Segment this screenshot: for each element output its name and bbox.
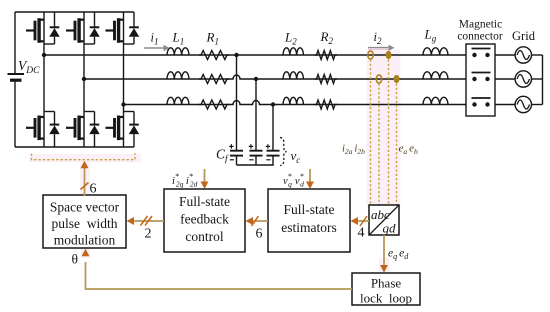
svg-text:lock loop: lock loop [360, 291, 412, 306]
svg-text:connector: connector [457, 31, 503, 43]
svg-text:feedback: feedback [180, 212, 229, 227]
svg-text:4: 4 [358, 226, 365, 241]
svg-text:Full-state: Full-state [179, 194, 230, 209]
svg-text:6: 6 [90, 182, 97, 197]
svg-text:Phase: Phase [371, 276, 402, 291]
svg-text:qd: qd [383, 221, 397, 236]
svg-text:Full-state: Full-state [284, 202, 335, 217]
svg-text:Magnetic: Magnetic [459, 19, 502, 31]
svg-text:θ: θ [72, 252, 78, 267]
svg-text:6: 6 [256, 227, 263, 242]
svg-text:control: control [185, 229, 223, 244]
svg-text:estimators: estimators [281, 220, 337, 235]
svg-text:Grid: Grid [512, 29, 536, 43]
svg-text:2: 2 [145, 227, 152, 242]
svg-text:pulse width: pulse width [52, 216, 118, 231]
svg-text:modulation: modulation [54, 233, 116, 248]
svg-text:Space vector: Space vector [50, 200, 120, 215]
